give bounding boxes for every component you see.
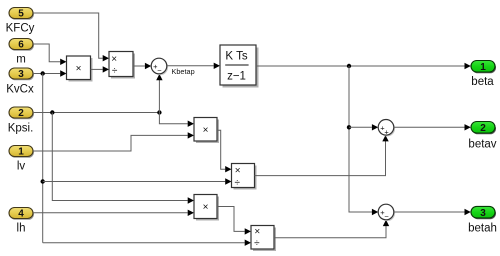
inport 3	[9, 68, 34, 80]
svg-text:×: ×	[235, 166, 241, 177]
wire inport6 to product U1 top	[33, 44, 60, 62]
wire inport4 to product U5 bottom	[33, 212, 188, 214]
svg-text:×: ×	[76, 64, 82, 75]
divide block U4	[232, 164, 257, 190]
svg-text:×: ×	[254, 227, 260, 238]
svg-text:K Ts: K Ts	[225, 51, 247, 63]
svg-text:2: 2	[480, 123, 486, 134]
node Kpsi junction at sum feedback	[157, 110, 161, 114]
svg-text:z−1: z−1	[227, 71, 246, 83]
svg-text:×: ×	[203, 125, 209, 136]
outport 1	[471, 61, 496, 74]
wire KvCx to divide U4 bottom	[43, 181, 226, 183]
inport 1	[9, 146, 34, 158]
svg-text:betah: betah	[468, 223, 497, 235]
wire U6 out to sum S3 bottom	[274, 225, 386, 238]
product block U5	[194, 195, 219, 221]
svg-text:×: ×	[111, 54, 117, 65]
svg-text:beta: beta	[471, 76, 494, 88]
svg-text:+: +	[384, 128, 389, 137]
node Kpsi to product U5	[50, 110, 54, 114]
node beta branch	[347, 64, 351, 68]
svg-text:−: −	[157, 66, 162, 75]
svg-text:lh: lh	[17, 223, 26, 235]
wire inport5 to divide U2 top	[33, 13, 103, 58]
divide block U6	[251, 226, 276, 252]
wire inport2 horizontal	[33, 112, 159, 114]
svg-text:KvCx: KvCx	[6, 84, 34, 96]
product block U1	[67, 56, 93, 82]
outport 2	[471, 122, 496, 135]
wire inport3 to product U1 bottom	[33, 73, 60, 75]
svg-text:lv: lv	[17, 161, 26, 173]
svg-text:3: 3	[18, 69, 24, 80]
svg-text:Kbetap: Kbetap	[172, 67, 195, 76]
product block U3	[194, 118, 219, 144]
wire Kpsi up to sum S1 minus	[158, 79, 160, 113]
inport 4	[9, 208, 34, 220]
outport 3	[471, 206, 496, 219]
inport 5	[9, 8, 34, 20]
svg-text:1: 1	[480, 62, 486, 73]
wire S1 out to integrator	[167, 65, 214, 67]
wire Kpsi to product U3 top	[159, 113, 187, 124]
sum S1	[151, 58, 168, 75]
svg-text:2: 2	[18, 108, 24, 119]
wire beta vertical branch	[349, 66, 372, 212]
svg-text:KFCy: KFCy	[6, 22, 35, 34]
wire KvCx to divide U6 bottom	[43, 242, 245, 244]
svg-text:Kpsi.: Kpsi.	[8, 123, 34, 135]
wire U1 out to divide U2 bottom	[91, 68, 103, 70]
divide block U2	[109, 52, 135, 79]
sum S2	[378, 120, 395, 137]
wire U4 out to sum S2 bottom	[255, 140, 386, 175]
svg-text:1: 1	[18, 147, 24, 158]
svg-text:÷: ÷	[235, 177, 241, 188]
node KvCx branch to divide U4	[41, 179, 45, 183]
wire S3 out to outport betah	[394, 211, 465, 213]
svg-text:×: ×	[203, 202, 209, 213]
wire Kpsi to product U5 top	[52, 113, 187, 201]
sum S3	[378, 204, 395, 221]
svg-text:m: m	[16, 53, 26, 65]
svg-text:÷: ÷	[112, 65, 118, 76]
inport 6	[9, 39, 34, 51]
svg-text:÷: ÷	[254, 238, 260, 249]
wire KvCx vertical branch	[42, 74, 44, 243]
wire beta to sum S2 left	[349, 126, 372, 128]
wire inport1 to product U3 bottom	[33, 135, 188, 151]
wire S2 out to outport betav	[394, 126, 465, 128]
svg-text:5: 5	[18, 9, 24, 20]
wire integrator out to outport beta	[256, 65, 465, 67]
svg-text:3: 3	[480, 208, 486, 219]
wire U3 out to divide U4 top	[217, 130, 225, 169]
node on KvCx wire	[41, 71, 45, 75]
inport 2	[9, 107, 34, 119]
svg-text:6: 6	[18, 40, 24, 51]
wire U5 out to divide U6 top	[217, 207, 245, 232]
wire U2 out to sum S1	[133, 65, 145, 67]
node beta branch to sum S2	[347, 125, 351, 129]
svg-text:−: −	[384, 212, 389, 221]
svg-text:4: 4	[18, 209, 24, 220]
discrete integrator block K Ts/(z-1)	[220, 45, 259, 88]
svg-text:betav: betav	[468, 139, 496, 151]
